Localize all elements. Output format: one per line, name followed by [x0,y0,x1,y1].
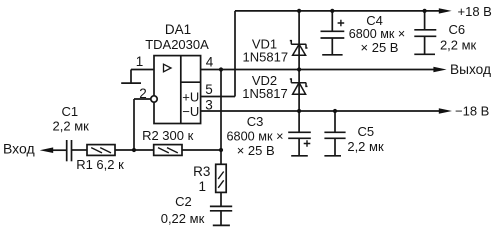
svg-text:Выход: Выход [450,62,491,77]
svg-text:1N5817: 1N5817 [243,50,289,65]
svg-text:DA1: DA1 [165,22,191,37]
svg-text:R3: R3 [193,164,210,179]
wire C2 down [220,211,222,226]
wire pin5 lead [201,96,235,98]
svg-text:+U: +U [182,89,199,104]
ground at C6 [414,53,435,55]
svg-text:4: 4 [206,54,214,69]
arrow -18V [439,108,452,113]
svg-text:1: 1 [136,54,144,69]
resistor R3 [216,164,227,192]
capacitor C4 [321,11,345,55]
svg-text:× 25 В: × 25 В [237,143,275,158]
ground at C4 [322,54,342,56]
ground at C2 [213,224,230,226]
resistor R2 [154,145,182,156]
diode VD2 [290,79,308,94]
wire R3 to C2 [220,192,222,206]
capacitor C1 [67,140,72,161]
plus mark C4 [338,20,345,27]
svg-text:× 25 В: × 25 В [361,40,399,55]
node VD2 bottom [297,109,301,113]
svg-text:C3: C3 [247,114,264,129]
op-amp DA1 body [151,56,201,124]
svg-text:5: 5 [205,82,213,97]
wire R1 to R2 [115,149,154,151]
svg-text:3: 3 [205,97,213,112]
svg-text:2,2 мк: 2,2 мк [440,38,477,53]
ground at C3 [291,155,308,157]
svg-text:C6: C6 [448,22,465,37]
node pin2 junction [132,148,136,152]
ground at C5 [324,155,341,157]
resistor R1 [87,145,115,156]
node feedback bottom [219,148,223,152]
wire feedback riser [220,70,222,151]
svg-text:2,2 мк: 2,2 мк [53,119,90,134]
svg-text:R2 300 к: R2 300 к [142,128,194,143]
node C4 top [330,9,334,13]
wire pin2 lead [134,98,151,100]
svg-text:R1 6,2 к: R1 6,2 к [76,157,124,172]
ground at pin1 [121,82,141,84]
wire pin2 riser [133,99,135,150]
capacitor C6 [414,11,436,54]
svg-text:−18 В: −18 В [455,104,489,119]
node feedback top [219,67,223,71]
node VD1 VD2 output [297,67,301,71]
node C6 top [423,9,427,13]
capacitor C2 [210,206,232,210]
wire pin1 drop [130,70,132,84]
svg-text:6800 мк ×: 6800 мк × [227,129,284,144]
node C5 top [333,109,337,113]
svg-text:1N5817: 1N5817 [242,86,288,101]
wire R2 to node [182,149,221,151]
wire +18V rail [235,10,440,12]
node VD1 top [297,9,301,13]
diode VD1 [290,41,308,56]
svg-text:2: 2 [139,86,147,101]
capacitor C5 [324,111,345,156]
svg-text:Вход: Вход [3,141,35,157]
wire diode branch [298,11,300,111]
svg-text:C1: C1 [61,104,78,119]
svg-text:TDA2030A: TDA2030A [145,37,209,52]
svg-text:2,2 мк: 2,2 мк [347,139,384,154]
svg-text:1: 1 [199,179,207,194]
arrow output [433,67,446,72]
svg-text:C5: C5 [357,124,374,139]
wire riser to +18V rail [234,11,236,97]
arrow +18V [439,8,452,13]
plus mark C3 [304,140,311,147]
wire output rail [201,69,435,71]
wire node to R3 [220,150,222,164]
wire C1 to R1 [72,149,88,151]
wire input line [53,149,67,151]
wire -18V rail [201,110,440,112]
svg-text:−U: −U [182,104,199,119]
wire pin1 lead [131,69,154,71]
svg-text:0,22 мк: 0,22 мк [161,211,205,226]
capacitor C3 [288,111,311,156]
svg-text:C2: C2 [175,194,192,209]
arrow input [40,147,54,153]
svg-text:+18 В: +18 В [458,4,492,19]
